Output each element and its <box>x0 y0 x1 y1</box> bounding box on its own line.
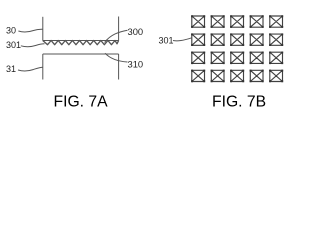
svg-text:310: 310 <box>128 59 144 70</box>
svg-text:FIG. 7A: FIG. 7A <box>54 94 109 111</box>
svg-text:30: 30 <box>6 26 16 36</box>
svg-text:301: 301 <box>6 40 21 50</box>
svg-text:301: 301 <box>159 35 174 45</box>
svg-text:31: 31 <box>6 64 16 74</box>
svg-text:300: 300 <box>128 26 144 37</box>
svg-text:FIG. 7B: FIG. 7B <box>212 94 266 111</box>
